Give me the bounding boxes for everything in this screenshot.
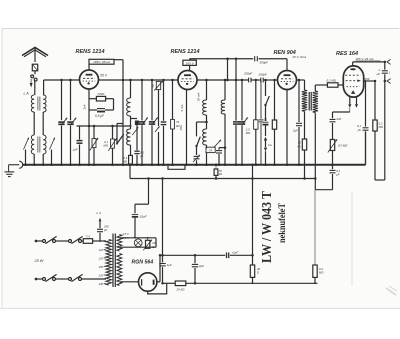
svg-text:5 mA: 5 mA	[180, 104, 184, 111]
wire	[205, 115, 208, 129]
tube V2 RENS 1214	[178, 71, 197, 90]
capacitor 250pF	[97, 224, 109, 242]
trimmer capacitor	[239, 80, 248, 166]
smoothing capacitor 2uF	[192, 255, 205, 284]
voltage box 165V 28mA (V1)	[89, 59, 114, 64]
secondary coil L2	[43, 95, 46, 112]
capacitor 0,1	[259, 80, 268, 165]
tap label 240	[98, 282, 104, 286]
transformer secondary	[313, 85, 318, 190]
grid resistor	[254, 80, 258, 166]
voltage box 165 V (V2)	[183, 59, 196, 71]
ground symbol	[4, 165, 14, 177]
dial lamp	[134, 238, 142, 247]
capacitor 500pF	[255, 56, 287, 70]
wire cathode to rail	[157, 254, 161, 282]
svg-text:Fe: Fe	[268, 143, 272, 147]
svg-text:125: 125	[99, 257, 104, 261]
shield link	[168, 165, 185, 170]
pickup box TA	[205, 147, 215, 166]
wire	[226, 59, 229, 82]
svg-text:neknufeleT: neknufeleT	[277, 203, 287, 243]
wire grid V1	[44, 79, 80, 82]
label 40V	[364, 77, 370, 81]
resistor 7240	[89, 92, 114, 101]
padder C3	[139, 80, 148, 166]
label 15 V 3mA	[292, 55, 306, 59]
tube V4 RES 164	[343, 66, 363, 97]
filter coil L3	[31, 135, 34, 154]
grid resistor 0,2 MOhm	[327, 78, 344, 87]
wire	[43, 80, 45, 95]
svg-text:55 V: 55 V	[100, 74, 108, 78]
electrolytic	[263, 105, 269, 136]
core	[38, 97, 40, 111]
trimmer on IF 1b	[132, 127, 138, 135]
terminal upper	[387, 59, 391, 64]
wave switch jog	[116, 124, 124, 145]
svg-text:μF: μF	[335, 172, 340, 176]
return line	[163, 282, 176, 284]
svg-text:200pF: 200pF	[258, 73, 267, 77]
svg-text:220: 220	[98, 274, 104, 278]
tap label 150	[99, 265, 104, 269]
label 38 mA	[197, 93, 201, 102]
capacitor 200pF a	[243, 72, 252, 83]
transformer core	[113, 234, 115, 288]
filter coil L4a	[43, 135, 46, 154]
HT rail	[160, 254, 225, 256]
phone jack Fe	[264, 137, 272, 166]
svg-text:pF: pF	[103, 228, 108, 232]
tap label 110	[99, 248, 104, 252]
capacitor 0,1uF (screen)	[357, 81, 369, 165]
HT winding	[117, 254, 122, 286]
wire cathode V1	[88, 89, 91, 166]
svg-text:185 V, 26 mA: 185 V, 26 mA	[356, 57, 374, 61]
trimmer left	[24, 138, 29, 167]
mains switch 2b	[69, 274, 83, 281]
wire	[114, 59, 123, 61]
mains switch 1a	[43, 236, 57, 243]
transformer primary winding	[106, 240, 111, 286]
label 5x4	[82, 104, 86, 109]
wire	[88, 64, 90, 70]
blocking capacitor	[131, 119, 139, 151]
svg-text:LW / W 043 T: LW / W 043 T	[260, 190, 275, 263]
antenna coil L1	[31, 95, 34, 112]
resistor 50 kOhm	[297, 139, 306, 180]
svg-text:15Ω: 15Ω	[179, 124, 183, 130]
antenna	[22, 48, 48, 63]
capacitor 0,5uF	[89, 109, 114, 119]
wire	[122, 60, 125, 166]
potentiometer 0,5 MOhm	[328, 139, 348, 166]
switch	[264, 80, 269, 106]
mains switch 2a	[69, 236, 83, 243]
svg-text:μF: μF	[139, 154, 144, 158]
label 15 Ohm	[179, 124, 183, 130]
capacitor 1uF (AVC)	[73, 126, 83, 166]
svg-text:4,5 V: 4,5 V	[122, 232, 128, 236]
svg-text:15 V, 3mA: 15 V, 3mA	[292, 55, 306, 59]
core	[38, 137, 40, 153]
label REN 904	[274, 50, 296, 56]
label RENS 1214 (V2)	[171, 49, 200, 55]
label 2,5 MOhm	[245, 128, 251, 136]
svg-text:1μF: 1μF	[167, 263, 172, 267]
wire	[77, 125, 132, 128]
transformer primary	[302, 80, 307, 139]
title T 340 W / WL	[260, 190, 275, 263]
wire	[297, 79, 305, 82]
terminal lower	[384, 79, 391, 84]
IF coil 2b	[203, 129, 207, 148]
wire	[315, 189, 332, 191]
wire	[113, 99, 115, 110]
wire	[42, 112, 44, 135]
svg-text:μF: μF	[357, 128, 362, 132]
wire	[56, 240, 69, 242]
svg-text:kΩ: kΩ	[219, 172, 222, 176]
trimmer 5x4	[90, 126, 98, 166]
label L 4	[97, 211, 102, 215]
svg-text:200pF: 200pF	[243, 72, 252, 76]
capacitor 10uF	[132, 204, 147, 238]
heater line	[129, 164, 315, 179]
IF coil 1b	[127, 129, 131, 155]
capacitor 1uF	[376, 62, 391, 81]
wave switch	[193, 122, 207, 166]
svg-text:RENS 1214: RENS 1214	[76, 49, 105, 55]
svg-text:165V, 28mA: 165V, 28mA	[93, 60, 110, 64]
svg-text:L 4: L 4	[97, 211, 102, 215]
mains switch 1b	[43, 274, 57, 281]
svg-text:0,2 MΩ: 0,2 MΩ	[327, 78, 337, 82]
heater row bottom	[120, 238, 156, 247]
filament return	[148, 283, 167, 294]
wire cathode V3	[286, 90, 289, 166]
trimmer right	[50, 138, 55, 167]
svg-text:0,5 μF: 0,5 μF	[95, 114, 105, 118]
svg-text:7,5: 7,5	[86, 234, 91, 238]
svg-text:2μF: 2μF	[198, 264, 204, 268]
svg-text:RENS 1214: RENS 1214	[171, 49, 200, 55]
svg-text:110: 110	[99, 248, 104, 252]
arrow to earth	[30, 79, 33, 88]
IF coil 2a	[203, 80, 207, 115]
heater row top	[120, 237, 156, 239]
wire screen feed	[190, 58, 254, 61]
svg-text:10μF: 10μF	[140, 214, 147, 218]
wire anode V1	[99, 79, 179, 82]
label 4,5 V 0,1 A	[122, 232, 128, 240]
resistor 0,3 MOhm	[123, 155, 133, 166]
mains wire bottom	[35, 278, 43, 280]
potentiometer 0,1 MOhm	[104, 126, 117, 166]
tube V3 REN 904	[278, 71, 297, 90]
svg-text:4nF: 4nF	[336, 117, 341, 121]
svg-text:TA: TA	[209, 149, 213, 153]
svg-text:7240: 7240	[97, 92, 104, 96]
resistor 0,2 MOhm (bias)	[313, 190, 325, 284]
oscillator coil	[221, 80, 226, 166]
capacitor 0,1uF (bias)	[330, 165, 341, 190]
capacitor	[216, 148, 225, 166]
trimmer on IF 2b	[214, 140, 221, 148]
title Telefunken	[277, 203, 287, 243]
wire	[42, 154, 45, 166]
label RES 164	[336, 51, 358, 57]
wire cathode V2	[185, 90, 188, 166]
label L.A.	[24, 92, 30, 96]
svg-text:2μF: 2μF	[292, 128, 298, 132]
wire anode V4	[353, 61, 386, 66]
tap label 125	[99, 257, 104, 261]
resistor	[272, 80, 276, 166]
svg-text:5x4: 5x4	[82, 104, 86, 109]
ground bus	[9, 161, 366, 168]
resistor 25 kOhm	[175, 281, 317, 291]
transformer core	[309, 92, 311, 111]
svg-text:240: 240	[98, 282, 104, 286]
series capacitor 2uF	[227, 251, 254, 259]
wire grid V4	[315, 84, 327, 86]
wire	[375, 179, 385, 181]
svg-text:L.A.: L.A.	[24, 92, 30, 96]
padder C4	[149, 80, 158, 166]
wire	[135, 177, 150, 204]
antenna switch	[31, 75, 37, 95]
resistor 70	[214, 164, 222, 180]
label 25 W	[34, 259, 44, 263]
capacitor 4nF	[330, 112, 342, 140]
svg-text:25 W: 25 W	[34, 259, 44, 263]
svg-text:RGN 564: RGN 564	[132, 260, 154, 266]
wire	[33, 112, 35, 135]
label 5 mA	[180, 104, 184, 111]
resistor 73	[171, 80, 181, 166]
tuning capacitor C1	[58, 80, 67, 166]
wire	[82, 278, 107, 280]
wire anode V2	[197, 79, 278, 82]
resistor 40 Ohm	[250, 164, 260, 284]
svg-text:0,5 MΩ: 0,5 MΩ	[338, 144, 348, 148]
label 185 V 26 mA	[356, 57, 381, 61]
wire	[333, 108, 350, 112]
wire	[56, 278, 69, 280]
capacitor 2uF	[292, 80, 302, 166]
label RENS 1214 (V1)	[76, 49, 105, 55]
tube V5 RGN 564	[139, 273, 157, 291]
wire	[365, 131, 367, 164]
svg-text:25 kΩ: 25 kΩ	[176, 287, 186, 291]
wire screen V4	[363, 80, 376, 83]
label 55 V	[100, 74, 108, 78]
smoothing capacitor 1uF	[159, 177, 172, 284]
mains wire top	[35, 240, 43, 242]
fuse 7,5	[82, 234, 107, 243]
tube V1 RENS 1214	[80, 70, 99, 89]
tap label 220	[98, 274, 104, 278]
label RGN 564	[132, 260, 154, 266]
heater winding	[117, 235, 122, 252]
svg-text:38 mA: 38 mA	[197, 93, 201, 102]
coupling arrow	[99, 218, 102, 229]
svg-text:1μF: 1μF	[73, 148, 78, 152]
wire	[130, 116, 132, 129]
svg-text:+2μF: +2μF	[232, 251, 239, 255]
tube pins V4	[348, 97, 358, 108]
capacitor 0,1uF	[134, 150, 144, 166]
wire	[33, 154, 36, 166]
tuning capacitor C2	[67, 80, 76, 166]
svg-text:150: 150	[99, 265, 104, 269]
wire HT to anode	[120, 281, 139, 283]
lightning arrester	[32, 64, 37, 74]
svg-text:μF: μF	[376, 72, 381, 76]
label 50	[151, 84, 155, 88]
svg-text:165 V: 165 V	[186, 61, 195, 65]
capacitor	[233, 80, 239, 166]
svg-text:500pF: 500pF	[260, 61, 269, 65]
wire	[235, 59, 238, 82]
potentiometer on anode	[154, 81, 163, 166]
wire	[384, 81, 386, 180]
rheostat 20 Ohm	[143, 238, 156, 251]
resistor 0,2 MOhm (V4 screen)	[373, 81, 384, 180]
capacitor 200pF b	[258, 73, 267, 83]
capacitor fixed	[161, 79, 167, 166]
primary taps	[104, 241, 107, 284]
IF coil 1a	[127, 80, 131, 116]
